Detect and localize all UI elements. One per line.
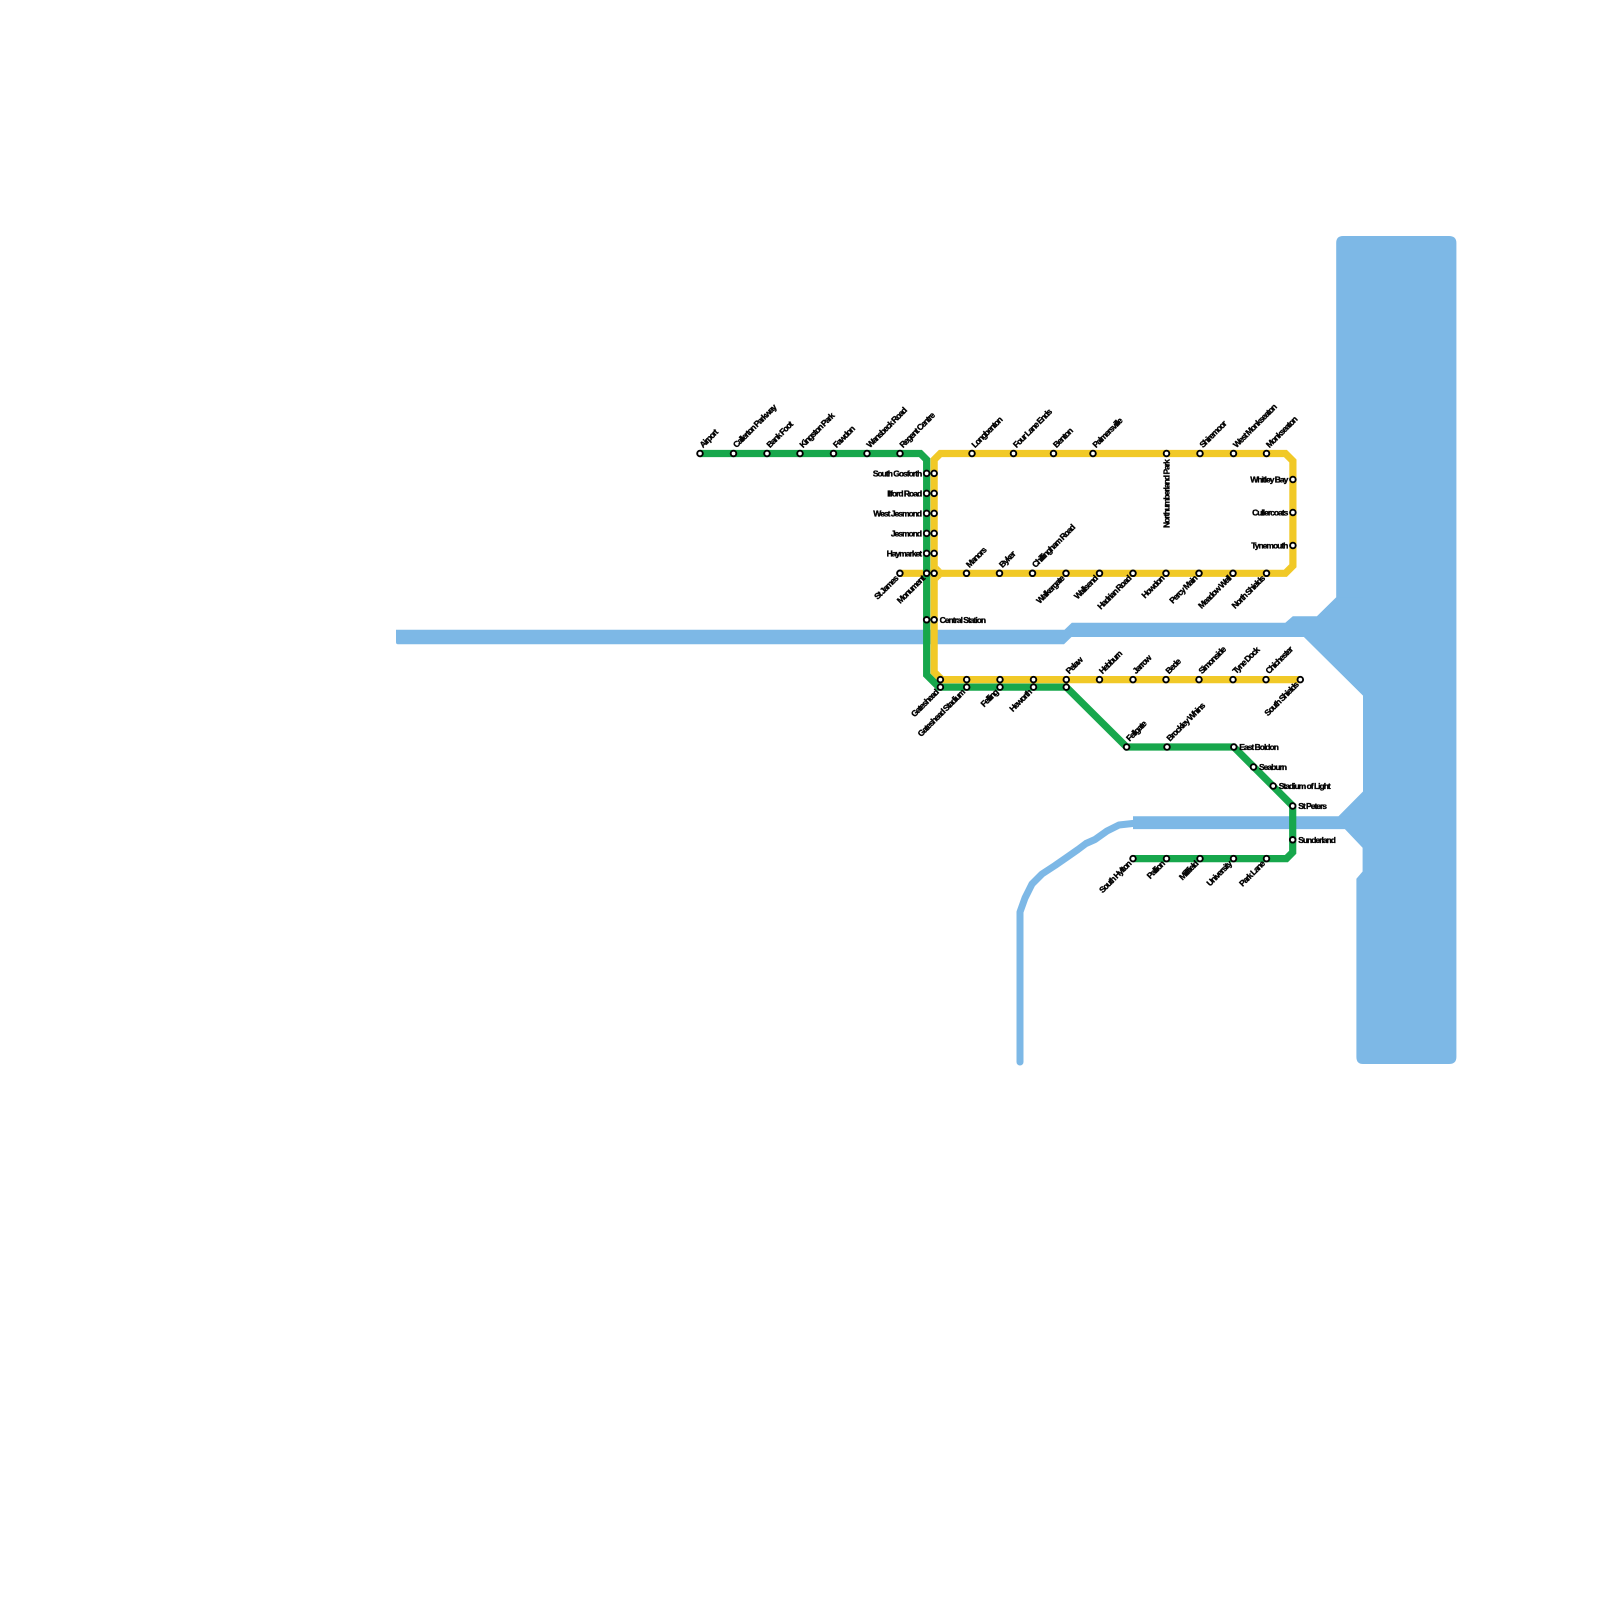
stations: central vertical pair — [924, 471, 930, 477]
stations: green north row — [697, 451, 703, 457]
svg-text:South Gosforth: South Gosforth — [873, 468, 922, 478]
River Wear wide reach — [1133, 816, 1352, 829]
svg-text:Tynemouth: Tynemouth — [1251, 541, 1288, 551]
River Wear upstream — [1020, 823, 1137, 1062]
svg-text:Central Station: Central Station — [940, 615, 986, 625]
Monument junction gussets — [938, 566, 942, 581]
stations: Monument row / coast south row — [897, 571, 903, 577]
yellow line (coast loop, St James to South Shields) — [900, 454, 1300, 680]
svg-text:West Jesmond: West Jesmond — [873, 508, 922, 518]
svg-text:Stadium of Light: Stadium of Light — [1279, 781, 1331, 791]
Monument interchange — [924, 571, 930, 577]
sea (North Sea) — [1304, 236, 1456, 1064]
stations: Gateshead pair row — [938, 677, 944, 683]
svg-text:Cullercoats: Cullercoats — [1252, 508, 1289, 518]
River Tyne — [396, 597, 1363, 695]
svg-text:East Boldon: East Boldon — [1239, 742, 1278, 752]
svg-text:Jesmond: Jesmond — [891, 528, 922, 538]
svg-text:Northumberland Park: Northumberland Park — [1162, 459, 1172, 528]
svg-text:Haymarket: Haymarket — [887, 548, 923, 558]
svg-text:Ilford Road: Ilford Road — [887, 488, 922, 498]
stations: green south branch to South Hylton — [1124, 744, 1130, 750]
stations: yellow east row to South Shields — [1097, 677, 1103, 683]
svg-text:St Peters: St Peters — [1298, 801, 1327, 811]
stations: yellow north row — [969, 451, 975, 457]
svg-text:Seaburn: Seaburn — [1259, 762, 1287, 772]
green line (Airport to South Hylton) — [700, 454, 1293, 859]
svg-text:Whitley Bay: Whitley Bay — [1250, 475, 1288, 485]
Central Station interchange — [924, 617, 930, 623]
svg-text:Sunderland: Sunderland — [1298, 835, 1336, 845]
stations: coast vertical — [1290, 477, 1296, 483]
